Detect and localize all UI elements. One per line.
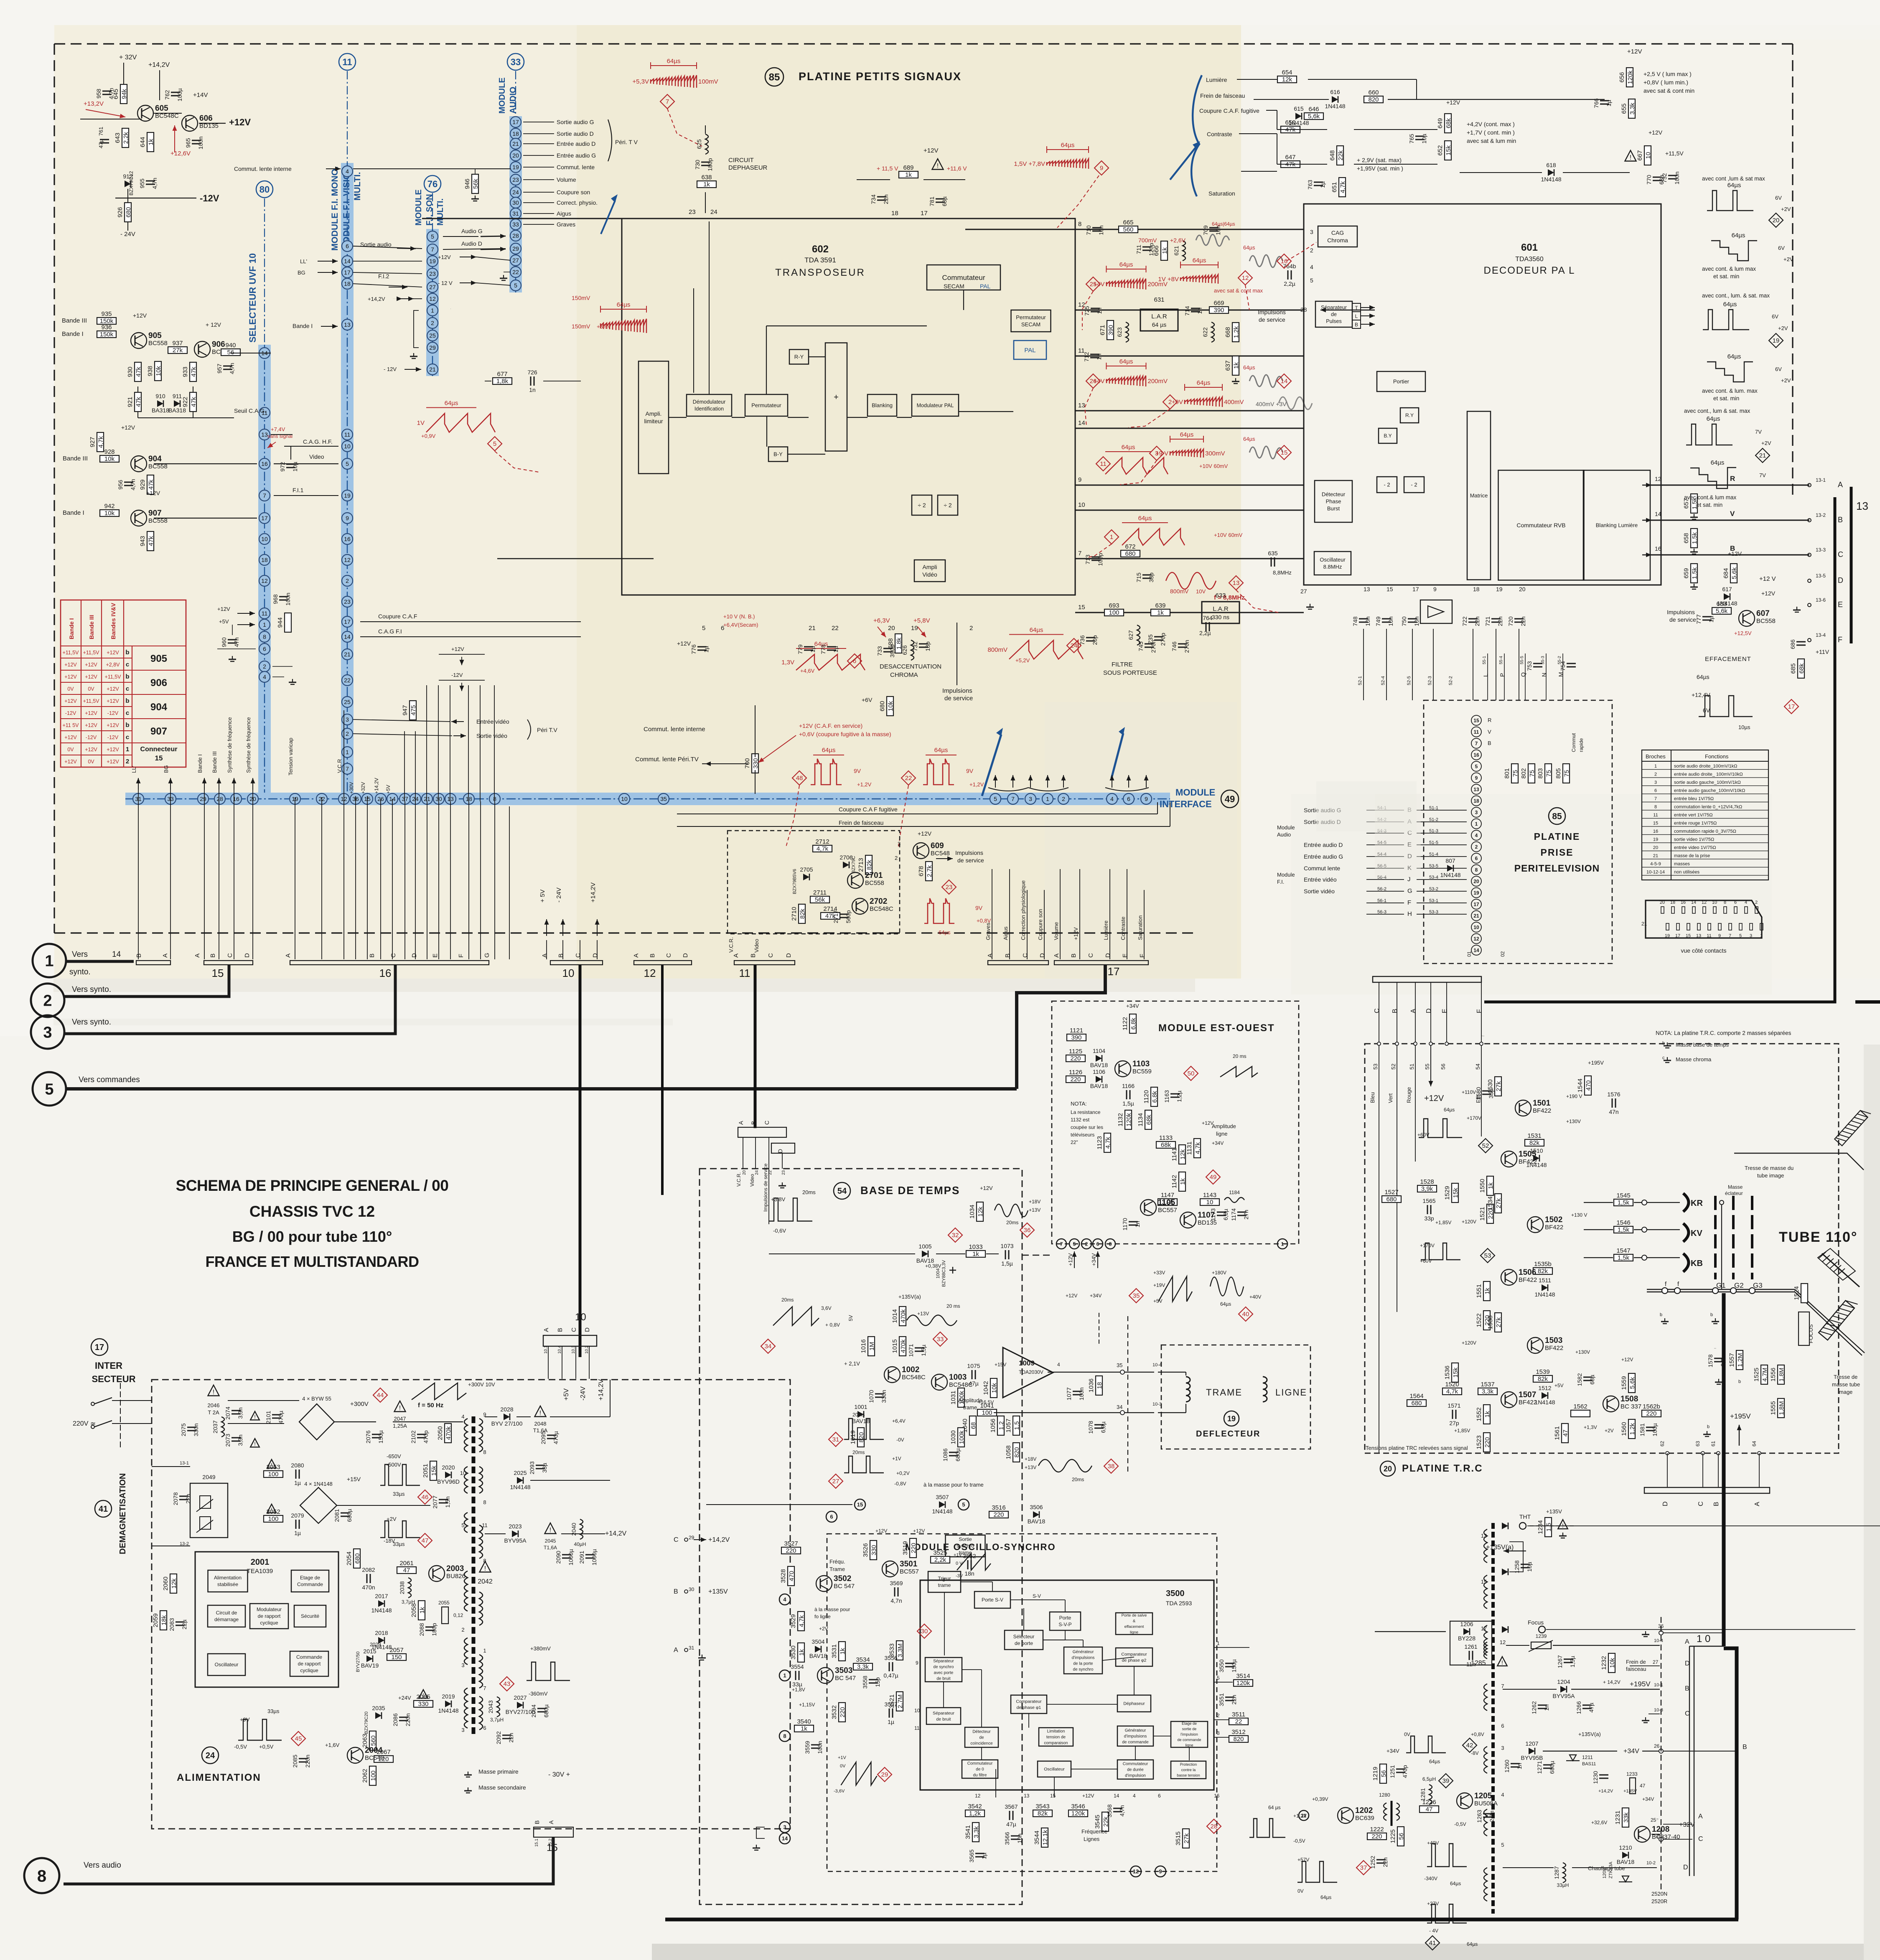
capacitor 960: [221, 637, 240, 647]
svg-text:64µs: 64µs: [1727, 182, 1741, 189]
svg-text:10: 10: [575, 1312, 586, 1323]
block div2 a: [912, 495, 932, 515]
trc pin circ: [1377, 1042, 1381, 1045]
svg-text:Bande I: Bande I: [62, 330, 84, 338]
trc pin circ: [1445, 1042, 1448, 1045]
svg-text:6V: 6V: [1775, 366, 1782, 372]
svg-text:9: 9: [916, 1660, 918, 1666]
svg-text:21: 21: [429, 366, 436, 373]
resistor 942: [100, 503, 119, 517]
svg-text:8: 8: [483, 1449, 486, 1455]
svg-text:c: c: [126, 661, 129, 668]
svg-text:2: 2: [895, 855, 898, 861]
wire to connector: [438, 801, 439, 959]
wire: [1043, 1640, 1065, 1640]
resistor 2054: [346, 1549, 361, 1568]
svg-text:Module: Module: [1277, 872, 1295, 878]
pin arrow up: [1011, 775, 1015, 788]
svg-text:1556: 1556: [1770, 1368, 1777, 1381]
connector 15b box: [534, 1827, 573, 1837]
svg-text:1133: 1133: [1159, 1134, 1173, 1141]
capacitor 956: [117, 479, 136, 490]
svg-text:du filtre: du filtre: [973, 1773, 987, 1778]
block adder: [825, 343, 847, 451]
svg-text:Commutateur RVB: Commutateur RVB: [1516, 522, 1565, 529]
svg-text:29: 29: [881, 1771, 888, 1778]
svg-text:37: 37: [1360, 1864, 1367, 1871]
svg-text:1531: 1531: [1527, 1132, 1541, 1139]
wire mod-pal out: [959, 411, 1013, 412]
svg-text:A: A: [162, 953, 169, 958]
svg-text:19: 19: [429, 258, 436, 264]
svg-text:47: 47: [1640, 1783, 1646, 1789]
svg-text:180p: 180p: [707, 158, 713, 171]
diode 615: [1288, 105, 1309, 126]
diamond 6: [847, 654, 862, 668]
svg-text:Chauffage tube: Chauffage tube: [1588, 1865, 1625, 1871]
svg-text:10n: 10n: [1016, 1833, 1023, 1843]
broches row line: [1642, 867, 1768, 868]
transistor 609: [913, 841, 950, 859]
resistor 1562b: [1642, 1403, 1661, 1417]
svg-text:1134: 1134: [1137, 1113, 1144, 1126]
waveform 7 burst: [632, 58, 718, 88]
tube pin: [1712, 1288, 1718, 1294]
svg-text:1147: 1147: [1161, 1192, 1174, 1199]
resistor 1121: [1067, 1027, 1086, 1041]
wire to connector: [468, 801, 469, 959]
svg-text:-12V: -12V: [200, 193, 219, 203]
svg-text:Entrée audio G: Entrée audio G: [1304, 853, 1343, 860]
svg-text:29: 29: [429, 344, 436, 351]
LL arrow: [318, 259, 338, 264]
up arrow: [136, 778, 141, 790]
jumper 3-14: [756, 1827, 765, 1838]
svg-text:1571: 1571: [1448, 1402, 1460, 1409]
svg-text:16: 16: [1681, 900, 1686, 905]
module 49: [1221, 790, 1239, 808]
svg-text:+5,8V: +5,8V: [913, 617, 930, 624]
svg-text:27k: 27k: [1495, 1198, 1502, 1208]
svg-text:64µs: 64µs: [1138, 515, 1152, 522]
capacitor 3569: [890, 1580, 903, 1604]
svg-text:A: A: [1685, 1638, 1689, 1645]
capacitor 713: [1084, 553, 1104, 566]
svg-text:680µ: 680µ: [346, 1509, 353, 1522]
svg-text:16: 16: [344, 536, 351, 542]
svg-text:55-1: 55-1: [1482, 656, 1487, 664]
svg-text:12: 12: [1655, 475, 1661, 482]
resistor 1015: [891, 1337, 907, 1356]
svg-text:BC558: BC558: [148, 340, 168, 347]
svg-text:DEFLECTEUR: DEFLECTEUR: [1196, 1429, 1260, 1439]
up arrow: [251, 778, 255, 790]
module 76: [424, 175, 441, 192]
transistor 1505: [1501, 1150, 1537, 1167]
pin 3: [342, 714, 353, 725]
svg-text:100k: 100k: [958, 1430, 965, 1444]
svg-text:+ 0,8V: + 0,8V: [825, 1322, 840, 1328]
svg-text:MODULE OSCILLO-SYNCHRO: MODULE OSCILLO-SYNCHRO: [905, 1542, 1056, 1552]
trc bpin 63: [1701, 1452, 1704, 1455]
module audio axis upper: [515, 71, 516, 117]
svg-text:2075: 2075: [180, 1423, 187, 1436]
svg-text:+14,2V: +14,2V: [708, 1536, 730, 1543]
svg-text:33: 33: [512, 221, 519, 228]
svg-text:coupée sur les: coupée sur les: [1071, 1124, 1103, 1130]
svg-text:715: 715: [1135, 572, 1142, 582]
resistor 1546: [1614, 1219, 1633, 1233]
capacitor 2095: [540, 1431, 559, 1444]
bus module FI axis: [347, 163, 348, 799]
svg-text:28: 28: [512, 232, 519, 239]
wire: [1584, 1202, 1613, 1203]
svg-text:0,47µ: 0,47µ: [883, 1672, 898, 1679]
resistor 933: [182, 362, 197, 381]
svg-text:50: 50: [1188, 1070, 1195, 1077]
svg-text:220n: 220n: [404, 1713, 411, 1726]
wire imp serv h: [769, 1253, 915, 1254]
ctrl wire v: [1109, 869, 1110, 959]
svg-text:+ 12V: + 12V: [206, 321, 221, 328]
svg-text:3,3k: 3,3k: [1629, 102, 1636, 114]
audio sig wire: [523, 143, 554, 144]
resistor 1058: [1005, 1443, 1020, 1462]
svg-text:1580: 1580: [1475, 1087, 1482, 1100]
pin 29: [198, 793, 209, 804]
svg-text:+14,2V: +14,2V: [590, 882, 597, 902]
svg-text:Impulsions: Impulsions: [955, 849, 983, 856]
svg-text:27n: 27n: [1243, 1210, 1249, 1219]
svg-text:contre la: contre la: [1181, 1768, 1196, 1772]
svg-text:2004: 2004: [365, 1746, 383, 1755]
pin arrow up: [1046, 775, 1050, 788]
svg-text:BYV95A: BYV95A: [504, 1537, 527, 1544]
scart pin 16: [1471, 750, 1481, 760]
scart pin 18: [1471, 796, 1481, 806]
svg-text:Modulateur PAL: Modulateur PAL: [917, 402, 954, 408]
diode 2017: [371, 1593, 392, 1614]
svg-text:Focus: Focus: [1528, 1619, 1544, 1626]
svg-text:Commutateur: Commutateur: [942, 274, 985, 282]
svg-text:2058: 2058: [410, 1603, 417, 1617]
svg-text:24: 24: [1071, 642, 1078, 649]
svg-text:BF422: BF422: [1519, 1399, 1537, 1406]
svg-text:!: !: [254, 1441, 256, 1447]
pin 21: [422, 793, 432, 804]
svg-text:BG: BG: [163, 765, 169, 773]
svg-text:Commut. lente: Commut. lente: [557, 164, 595, 170]
svg-text:de commande: de commande: [1177, 1738, 1201, 1742]
svg-text:1k: 1k: [148, 139, 155, 145]
wire sep-det: [981, 1670, 982, 1727]
svg-text:638: 638: [701, 174, 712, 181]
svg-text:1078: 1078: [1087, 1421, 1094, 1434]
wire gen-etage: [1153, 1736, 1171, 1736]
pin 12: [338, 793, 349, 804]
svg-text:6: 6: [1501, 1723, 1504, 1729]
svg-text:+: +: [834, 393, 839, 402]
svg-text:8,8MHz: 8,8MHz: [1273, 569, 1292, 576]
svg-text:180p: 180p: [431, 1623, 438, 1636]
waveform 38: [1038, 1459, 1092, 1472]
resistor 1529: [1444, 1183, 1459, 1202]
svg-text:18n: 18n: [964, 1570, 974, 1577]
svg-text:+12V: +12V: [1621, 1357, 1633, 1363]
svg-text:+10V 60mV: +10V 60mV: [1214, 532, 1243, 538]
svg-text:16: 16: [261, 460, 268, 467]
svg-text:commutation rapide 0_3V/75Ω: commutation rapide 0_3V/75Ω: [1674, 829, 1736, 834]
svg-text:665: 665: [1123, 219, 1133, 226]
svg-text:684: 684: [1722, 568, 1730, 578]
capacitor 2092: [495, 1731, 514, 1744]
svg-text:1: 1: [783, 1673, 786, 1679]
pin arrow up: [1144, 775, 1149, 788]
svg-text:9: 9: [1718, 933, 1721, 938]
capacitor 2083: [168, 1618, 188, 1631]
wire: [1158, 1412, 1186, 1413]
capacitor 968: [272, 592, 291, 605]
svg-text:3: 3: [43, 1024, 52, 1042]
svg-text:17: 17: [1108, 965, 1120, 978]
scart pin top: [1671, 907, 1674, 913]
scart pin 5: [1471, 761, 1481, 771]
sig wire: [1366, 891, 1404, 892]
svg-text:1005: 1005: [918, 1243, 931, 1250]
svg-text:+380mV: +380mV: [530, 1645, 551, 1652]
wire: [485, 1474, 510, 1475]
svg-text:220: 220: [1371, 1833, 1382, 1840]
diamond 12: [1238, 271, 1252, 285]
svg-text:1: 1: [1760, 933, 1763, 938]
svg-text:2073: 2073: [224, 1434, 231, 1446]
capacitor 3552: [963, 1553, 976, 1577]
wire: [217, 648, 256, 649]
capacitor 720: [1507, 616, 1526, 626]
bus module FI son axis: [432, 229, 433, 376]
svg-text:100n: 100n: [197, 136, 204, 149]
svg-text:MODULE F.I. VISION: MODULE F.I. VISION: [342, 166, 351, 251]
svg-text:726: 726: [527, 369, 537, 376]
wire to commutateur: [766, 325, 927, 326]
svg-text:2,7n: 2,7n: [1488, 1810, 1495, 1822]
svg-text:b: b: [1710, 1312, 1713, 1317]
svg-text:64: 64: [1751, 1441, 1757, 1446]
scart pin top: [1661, 907, 1664, 913]
svg-text:+1,8V: +1,8V: [792, 1687, 805, 1693]
capacitor 1166: [1122, 1083, 1135, 1107]
svg-text:47: 47: [1562, 1430, 1569, 1437]
svg-text:1234: 1234: [1537, 1520, 1544, 1534]
svg-text:1523: 1523: [1476, 1435, 1483, 1449]
connector base box D: [771, 1143, 795, 1153]
svg-text:1: 1: [483, 1647, 486, 1654]
svg-text:Bande I: Bande I: [63, 509, 84, 516]
svg-text:8: 8: [783, 1733, 786, 1739]
svg-text:13-6: 13-6: [1816, 597, 1826, 603]
wire: [1634, 1229, 1680, 1230]
svg-text:Burst: Burst: [1327, 506, 1340, 512]
capacitor 721: [1484, 616, 1503, 626]
svg-text:ligne: ligne: [1130, 1630, 1138, 1635]
diode 1005: [916, 1243, 934, 1264]
svg-text:2: 2: [346, 577, 349, 584]
pin 6: [342, 241, 353, 252]
svg-text:933: 933: [182, 366, 189, 377]
svg-text:Commut. lente Péri.TV: Commut. lente Péri.TV: [635, 756, 699, 763]
svg-text:+60V: +60V: [1417, 1132, 1429, 1138]
svg-text:22": 22": [1071, 1139, 1078, 1145]
diamond 5 red: [488, 437, 502, 451]
svg-text:Séparateur: Séparateur: [933, 1659, 954, 1664]
wire: [137, 386, 138, 393]
pin 2: [427, 318, 438, 328]
svg-text:Module: Module: [1277, 824, 1295, 831]
svg-text:20: 20: [1773, 217, 1780, 224]
svg-text:2: 2: [126, 758, 129, 765]
svg-text:BAV19: BAV19: [361, 1662, 379, 1669]
resistor 1534: [1487, 1194, 1502, 1213]
pin 14: [342, 256, 353, 267]
svg-text:150mV: 150mV: [572, 323, 590, 330]
svg-text:21: 21: [1653, 854, 1658, 859]
diode 618: [1541, 162, 1561, 183]
svg-text:sortie audio droite_100mV/1kΩ: sortie audio droite_100mV/1kΩ: [1674, 764, 1737, 769]
svg-text:100: 100: [268, 1471, 278, 1478]
svg-text:1562b: 1562b: [1643, 1403, 1660, 1410]
svg-text:1184: 1184: [1229, 1190, 1240, 1195]
svg-text:13: 13: [1078, 402, 1085, 409]
block -2 b: [1404, 477, 1424, 493]
svg-text:B: B: [135, 953, 142, 958]
svg-text:+60V: +60V: [1420, 1258, 1432, 1264]
svg-text:1561: 1561: [1554, 1426, 1561, 1440]
svg-text:+2V: +2V: [1778, 325, 1788, 331]
svg-text:Bandes IV&V: Bandes IV&V: [110, 602, 117, 639]
capacitor 745: [1137, 640, 1157, 653]
+12V arrow: [1429, 1045, 1433, 1086]
svg-text:17: 17: [921, 210, 928, 217]
paper tint right: [1241, 40, 1880, 1045]
svg-text:10: 10: [621, 796, 628, 802]
pin 18: [259, 554, 270, 565]
svg-text:390: 390: [1213, 307, 1224, 314]
vers 3 thick wire: [64, 964, 395, 1034]
wire: [1214, 1737, 1229, 1738]
svg-text:+12V: +12V: [1728, 550, 1742, 557]
svg-text:52-3: 52-3: [1427, 676, 1432, 685]
pin 16: [342, 534, 353, 544]
svg-text:52: 52: [1482, 1142, 1489, 1149]
svg-text:+12V: +12V: [923, 147, 938, 154]
transistor 1501: [1515, 1099, 1551, 1116]
resistor 2052: [264, 1508, 283, 1523]
svg-text:2020: 2020: [442, 1464, 455, 1471]
resistor 2053: [264, 1464, 283, 1478]
svg-text:A: A: [285, 953, 292, 958]
svg-text:+4,2V (cont. max ): +4,2V (cont. max ): [1467, 121, 1515, 127]
svg-text:B: B: [1488, 740, 1491, 746]
conn10 wire: [562, 1346, 562, 1379]
svg-text:Frein de faisceau: Frein de faisceau: [1200, 92, 1245, 99]
svg-text:651: 651: [1331, 182, 1338, 192]
svg-text:1232: 1232: [1600, 1656, 1608, 1670]
resistor 1131: [1186, 1139, 1201, 1158]
svg-text:3557: 3557: [884, 1701, 897, 1708]
connector 18 box: [988, 961, 1048, 965]
waveform 25 burst: [1093, 261, 1168, 290]
svg-text:27p: 27p: [1449, 1420, 1459, 1426]
diamond 19: [1769, 333, 1783, 348]
svg-text:D: D: [1838, 576, 1843, 585]
transistor 2003: [429, 1564, 466, 1581]
resistor 1056: [990, 1416, 1005, 1435]
pin 2: [1058, 793, 1069, 804]
capacitor 2080: [291, 1462, 304, 1486]
waveform grey 14: [1249, 375, 1283, 387]
resistor 803: [1537, 764, 1552, 783]
svg-text:et sat. min: et sat. min: [1697, 502, 1722, 508]
wire to connector: [355, 796, 356, 959]
waveform lum6: [1690, 459, 1736, 488]
rail wire upper: [468, 685, 469, 801]
svg-text:H: H: [1407, 910, 1412, 918]
svg-text:5: 5: [514, 282, 517, 289]
tube base line: [1647, 1289, 1795, 1292]
svg-text:5: 5: [1739, 933, 1742, 938]
svg-text:A: A: [987, 953, 994, 958]
svg-text:6: 6: [830, 1514, 833, 1520]
svg-text:24: 24: [755, 1170, 759, 1175]
eclateur sym: [1720, 1200, 1724, 1205]
pin 21: [427, 364, 438, 375]
svg-text:+14,2V: +14,2V: [598, 1379, 605, 1401]
ground: [1712, 1318, 1719, 1324]
svg-text:905: 905: [148, 331, 162, 340]
diamond 7: [660, 94, 674, 109]
svg-text:+11,6 V: +11,6 V: [947, 165, 967, 172]
svg-text:2092: 2092: [495, 1731, 502, 1744]
svg-text:965: 965: [185, 138, 191, 148]
pin 35 circle: [1120, 1370, 1124, 1374]
svg-text:+120V: +120V: [1462, 1340, 1476, 1346]
table broches: [1642, 750, 1768, 880]
pin 25: [342, 697, 353, 707]
svg-text:627: 627: [1127, 630, 1134, 640]
wire 700 down: [755, 770, 756, 794]
pin 4: [259, 671, 270, 682]
svg-text:D: D: [1662, 1501, 1669, 1506]
pin 5 os: [958, 1499, 969, 1510]
svg-text:64µs: 64µs: [1180, 431, 1194, 438]
svg-text:1106: 1106: [1093, 1068, 1105, 1075]
wire 904 out: [154, 463, 257, 464]
vert wire down: [1397, 1045, 1397, 1312]
svg-text:b: b: [1662, 1041, 1665, 1046]
wire: [897, 417, 912, 418]
svg-text:3550: 3550: [1218, 1659, 1225, 1672]
svg-text:29: 29: [512, 245, 519, 252]
capacitor 770: [1646, 175, 1665, 185]
svg-text:BG / 00 pour tube 110°: BG / 00 pour tube 110°: [232, 1228, 392, 1245]
svg-text:904: 904: [150, 702, 168, 713]
commut arrow: [326, 167, 341, 171]
svg-text:32: 32: [952, 1232, 959, 1239]
resistor 2710: [791, 904, 806, 923]
block matrice: [1467, 412, 1491, 580]
svg-text:NOTA: La platine T.R.C. co: NOTA: La platine T.R.C. comporte 2 masse…: [1656, 1030, 1791, 1036]
svg-text:47µ: 47µ: [1588, 1703, 1595, 1713]
